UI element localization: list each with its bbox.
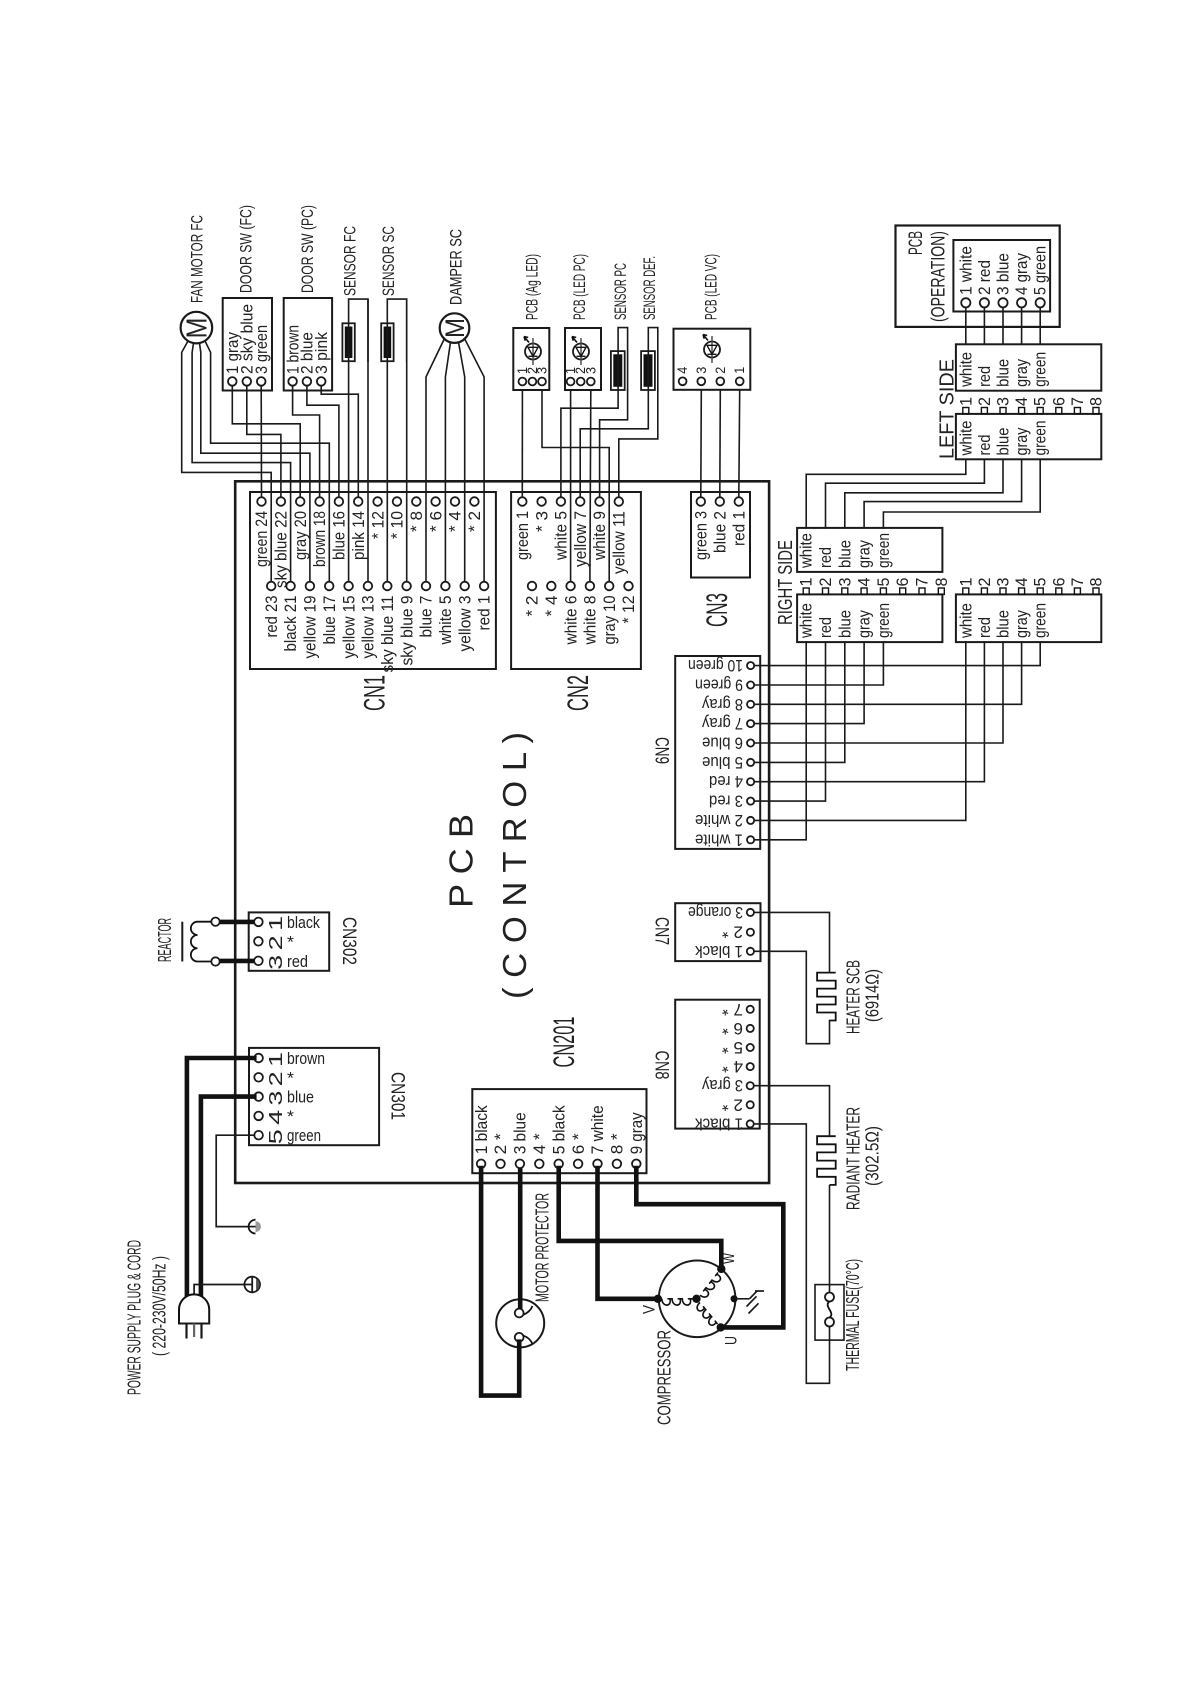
svg-text:white: white	[957, 352, 975, 388]
wire SENSOR PC case lead to CN2 pin9	[600, 390, 628, 497]
svg-text:green 24: green 24	[252, 511, 271, 567]
LEFT SIDE lower mate color labels	[957, 603, 1049, 639]
PCB OPERATION pin labels	[957, 246, 1049, 295]
svg-text:3: 3	[265, 1091, 286, 1106]
svg-text:brown: brown	[287, 1049, 325, 1068]
svg-text:3 blue: 3 blue	[995, 253, 1013, 295]
svg-text:2 red: 2 red	[976, 260, 994, 295]
wire THERMAL FUSE to CN8 pin1	[754, 1124, 830, 1383]
svg-text:CN2: CN2	[562, 675, 595, 711]
connector CN7	[675, 903, 760, 961]
svg-text:2 *: 2 *	[721, 923, 743, 941]
svg-text:gray 20: gray 20	[291, 511, 310, 560]
CN2 bottom row pin labels	[523, 596, 639, 646]
svg-text:SENSOR PC: SENSOR PC	[611, 263, 630, 320]
svg-text:green: green	[875, 603, 893, 638]
svg-text:3: 3	[995, 397, 1013, 406]
wire plug earth to chassis ground	[194, 1285, 244, 1296]
chassis ground (plug shell)	[244, 1277, 260, 1293]
label PCB (CONTROL)	[442, 732, 532, 999]
svg-text:*: *	[287, 933, 294, 952]
wire CN9 pin 8 to side connector	[754, 642, 1021, 704]
svg-text:sky blue 11: sky blue 11	[378, 596, 397, 673]
svg-text:red 1: red 1	[475, 596, 494, 631]
connector CN302	[249, 912, 330, 970]
CN301 pins 1-5	[254, 1054, 263, 1140]
RIGHT SIDE pin numbers 1-8	[798, 578, 951, 587]
wire DOOR SW FC pin2 to CN1 pin22	[247, 386, 281, 498]
svg-text:7: 7	[1069, 578, 1087, 587]
svg-text:red: red	[817, 547, 835, 568]
wire HEATER SCB to CN7 pin1	[754, 951, 830, 1043]
LEFT SIDE upper color labels	[957, 352, 1049, 388]
connector LEFT SIDE upper half	[956, 344, 1101, 390]
svg-text:red: red	[287, 952, 308, 971]
wire side link 4 (right side to left side)	[864, 459, 1022, 528]
wire damper lead 2 to CN1 pin 5	[445, 342, 450, 582]
svg-text:2: 2	[976, 578, 994, 587]
RIGHT SIDE mating pins	[803, 588, 944, 594]
svg-text:blue: blue	[287, 1088, 314, 1107]
svg-text:blue: blue	[836, 610, 854, 638]
wire LED VC pin2 to CN3 pin2	[719, 390, 722, 497]
wire damper lead 3 to CN1 pin 3	[459, 342, 465, 582]
svg-text:V: V	[640, 1304, 659, 1314]
inductor REACTOR	[182, 918, 219, 966]
thermistor SENSOR PC	[611, 328, 628, 390]
svg-text:5 *: 5 *	[721, 1038, 743, 1056]
svg-text:FAN MOTOR FC: FAN MOTOR FC	[188, 215, 207, 303]
connector on PCB (OPERATION)	[953, 240, 1050, 312]
svg-text:1: 1	[732, 367, 747, 374]
wire fan motor lead 3 to CN1 pin 19	[200, 343, 310, 582]
svg-text:white: white	[798, 603, 816, 639]
PCB (CONTROL) board outline	[235, 481, 769, 1183]
svg-text:3 green: 3 green	[252, 325, 271, 374]
svg-text:green: green	[875, 533, 893, 568]
wire CN9 pin 4 to side connector	[754, 642, 984, 782]
svg-text:6: 6	[1050, 397, 1068, 406]
wire side link 3 (right side to left side)	[845, 459, 1003, 528]
svg-text:*: *	[287, 1107, 294, 1126]
wire SENSOR PC center lead to CN2 pin5	[561, 390, 618, 497]
label HEATER SCB (6914 ohm)	[844, 960, 883, 1034]
svg-text:5 blue: 5 blue	[702, 753, 743, 771]
wire SENSOR DEF case lead to CN2 pin11	[619, 390, 658, 497]
svg-text:3: 3	[836, 578, 854, 587]
svg-text:5: 5	[265, 1129, 286, 1144]
wire PCB OPERATION pin 5 to LEFT SIDE	[1039, 307, 1041, 344]
switch DOOR SW (PC)	[284, 298, 332, 391]
thermal fuse THERMAL FUSE(70C)	[815, 1285, 844, 1341]
svg-text:1: 1	[798, 578, 816, 587]
svg-text:(6914Ω): (6914Ω)	[863, 969, 883, 1022]
svg-text:DOOR SW (FC): DOOR SW (FC)	[237, 205, 256, 293]
svg-text:U: U	[722, 1336, 741, 1345]
svg-text:4 gray: 4 gray	[1013, 252, 1031, 295]
svg-text:4: 4	[1013, 397, 1031, 406]
svg-text:2: 2	[265, 935, 286, 950]
svg-text:MOTOR PROTECTOR: MOTOR PROTECTOR	[533, 1193, 553, 1302]
svg-text:* 8: * 8	[407, 511, 426, 532]
svg-text:red: red	[976, 617, 994, 638]
CN301 pin labels	[265, 1049, 325, 1145]
CN7 pins 3-1	[747, 909, 754, 955]
switch DOOR SW (FC)	[223, 298, 272, 391]
DOOR SW (PC) pin labels	[283, 325, 331, 374]
svg-text:green: green	[1032, 603, 1050, 638]
wire side link 1 (right side to left side)	[806, 459, 966, 528]
wire CN9 pin 10 to side connector	[754, 642, 1040, 666]
wire CN9 pin 6 to side connector	[754, 642, 1003, 743]
svg-text:5 green: 5 green	[1032, 246, 1050, 295]
svg-text:2: 2	[976, 397, 994, 406]
svg-text:1: 1	[265, 1052, 286, 1067]
svg-text:sky blue 22: sky blue 22	[272, 511, 291, 588]
svg-text:* 3: * 3	[532, 511, 551, 532]
svg-text:4 red: 4 red	[709, 772, 743, 790]
CN201 pins 1-9	[477, 1160, 641, 1169]
svg-text:CN8: CN8	[651, 1051, 672, 1080]
label POWER SUPPLY PLUG & CORD	[125, 1240, 170, 1395]
wire CN301 pin5 green to chassis ground	[216, 1135, 254, 1226]
DOOR SW (PC) pins 1-3	[288, 377, 325, 386]
connector CN9	[675, 656, 760, 849]
wire SENSOR FC center lead to CN1 pin15	[348, 361, 350, 582]
connector CN1	[250, 492, 496, 669]
svg-text:6: 6	[1050, 578, 1068, 587]
wire CN9 pin 1 to side connector	[754, 642, 806, 840]
svg-text:gray: gray	[856, 539, 874, 568]
svg-text:blue: blue	[836, 540, 854, 568]
svg-text:6 blue: 6 blue	[702, 734, 743, 752]
svg-text:green 3: green 3	[692, 511, 711, 560]
svg-text:M: M	[182, 318, 214, 339]
svg-text:3 gray: 3 gray	[701, 1076, 743, 1094]
wire LED PC pin3 to CN2 pin8	[589, 390, 592, 582]
svg-text:REACTOR: REACTOR	[155, 918, 175, 962]
svg-text:2: 2	[713, 367, 728, 374]
svg-text:2 *: 2 *	[721, 1095, 743, 1113]
thermistor SENSOR DEF.	[641, 328, 658, 390]
svg-text:3: 3	[583, 367, 598, 374]
connector CN8	[675, 1000, 760, 1129]
connector CN301	[249, 1048, 379, 1145]
svg-text:8 gray: 8 gray	[701, 695, 743, 713]
svg-text:7 gray: 7 gray	[701, 714, 743, 732]
svg-text:blue: blue	[995, 610, 1013, 638]
svg-text:red 1: red 1	[730, 511, 749, 546]
svg-text:3 red: 3 red	[709, 792, 743, 810]
svg-text:( C O N T R O L ): ( C O N T R O L )	[496, 732, 533, 999]
wire CN9 pin 7 to side connector	[754, 642, 864, 724]
CN8 pins 7-1	[747, 1006, 754, 1128]
wire DOOR SW PC pin2 to CN1 pin16	[307, 386, 339, 498]
svg-text:DAMPER SC: DAMPER SC	[447, 229, 466, 305]
svg-text:black 21: black 21	[281, 596, 300, 652]
wire side link 2 (right side to left side)	[826, 459, 985, 528]
svg-text:white: white	[957, 603, 975, 639]
svg-text:brown 18: brown 18	[310, 511, 329, 567]
wire CN201 pin5 to compressor W	[559, 1168, 722, 1266]
svg-text:SENSOR DEF.: SENSOR DEF.	[640, 256, 659, 320]
fan motor FC symbol M	[181, 312, 214, 344]
connector CN3	[691, 492, 750, 578]
svg-text:7: 7	[1069, 397, 1087, 406]
svg-text:yellow 7: yellow 7	[571, 511, 590, 567]
LEFT SIDE mating pins	[963, 408, 1099, 414]
CN9 pins 10-1	[747, 662, 754, 843]
svg-text:CN302: CN302	[338, 917, 359, 965]
svg-text:1: 1	[957, 578, 975, 587]
svg-text:green: green	[1032, 352, 1050, 387]
power plug	[179, 1294, 210, 1338]
wire LED VC pin1 to CN3 pin1	[738, 390, 741, 497]
wire DOOR SW PC pin1 to CN1 pin18	[293, 386, 320, 498]
wire Ag LED pin3 to CN2 pin10	[542, 390, 609, 582]
resistor RADIANT HEATER	[817, 1136, 836, 1185]
svg-text:M: M	[440, 318, 470, 338]
svg-text:2: 2	[265, 1071, 286, 1086]
svg-text:blue 16: blue 16	[330, 511, 349, 560]
connector LEFT SIDE lower mate	[956, 594, 1101, 642]
svg-text:gray: gray	[1013, 609, 1031, 638]
LED board PCB (LED VC)	[674, 329, 751, 390]
wire fan motor lead 4 to CN1 pin 17	[205, 341, 329, 582]
svg-text:red 23: red 23	[262, 596, 281, 638]
svg-text:blue: blue	[995, 359, 1013, 387]
svg-text:4: 4	[1013, 578, 1031, 587]
svg-text:* 12: * 12	[619, 596, 638, 624]
wire RADIANT HEATER to THERMAL FUSE	[829, 1185, 831, 1293]
svg-text:CN1: CN1	[359, 675, 392, 711]
svg-text:(OPERATION): (OPERATION)	[928, 231, 949, 322]
svg-text:* 10: * 10	[388, 511, 407, 539]
wire CN9 pin 9 to side connector	[754, 642, 883, 685]
compressor frame ground	[738, 1291, 764, 1314]
svg-text:yellow 19: yellow 19	[301, 596, 320, 659]
svg-text:yellow 11: yellow 11	[610, 511, 629, 574]
svg-text:6 *: 6 *	[721, 1019, 743, 1037]
CN2 bottom row pins 2-12	[528, 582, 633, 591]
svg-text:* 4: * 4	[542, 596, 561, 617]
PCB (OPERATION) board outline	[896, 226, 1060, 327]
wire damper lead 4 to CN1 pin 1	[465, 339, 485, 582]
svg-text:HEATER SCB: HEATER SCB	[844, 960, 864, 1034]
svg-text:* 6: * 6	[426, 511, 445, 532]
CN3 pin labels	[692, 511, 749, 560]
svg-text:9 gray: 9 gray	[627, 1112, 646, 1154]
svg-text:3: 3	[265, 955, 286, 970]
LED board PCB (LED PC)	[563, 328, 601, 390]
svg-text:5: 5	[875, 578, 893, 587]
svg-text:3 blue: 3 blue	[511, 1112, 530, 1154]
svg-text:8: 8	[1088, 397, 1106, 406]
CN302 pins 1-3	[254, 918, 263, 965]
CN7 pin labels	[688, 903, 743, 960]
svg-text:PCB (Ag LED): PCB (Ag LED)	[523, 254, 542, 320]
svg-text:6 *: 6 *	[569, 1133, 588, 1154]
wire CN301 pin3 blue to plug	[201, 1097, 254, 1298]
svg-text:CN3: CN3	[701, 593, 734, 627]
CN302 pin labels	[265, 913, 320, 971]
connector RIGHT SIDE lower half	[797, 594, 942, 642]
svg-text:white 6: white 6	[561, 596, 580, 646]
svg-text:CN301: CN301	[387, 1072, 408, 1120]
svg-text:gray: gray	[856, 609, 874, 638]
svg-text:red: red	[976, 366, 994, 387]
thermistor SENSOR SC	[381, 299, 407, 361]
svg-text:blue 2: blue 2	[711, 511, 730, 553]
svg-text:white 5: white 5	[436, 596, 455, 646]
LEFT SIDE lower mate mating pins	[963, 588, 1099, 594]
svg-text:CN7: CN7	[651, 917, 672, 945]
LED board PCB (Ag LED)	[513, 328, 549, 390]
svg-text:3 orange: 3 orange	[688, 903, 743, 921]
svg-text:black: black	[287, 913, 320, 932]
svg-text:SENSOR FC: SENSOR FC	[341, 226, 360, 296]
svg-text:7 *: 7 *	[721, 1000, 743, 1018]
wire PCB OPERATION pin 2 to LEFT SIDE	[983, 307, 985, 344]
svg-text:POWER SUPPLY PLUG & CORD: POWER SUPPLY PLUG & CORD	[125, 1240, 145, 1395]
svg-text:green: green	[1032, 421, 1050, 456]
svg-text:RIGHT SIDE: RIGHT SIDE	[775, 540, 797, 625]
svg-text:SENSOR SC: SENSOR SC	[379, 226, 398, 296]
svg-text:blue: blue	[995, 428, 1013, 456]
svg-text:CN9: CN9	[651, 737, 672, 764]
wire PCB OPERATION pin 3 to LEFT SIDE	[1002, 307, 1004, 344]
svg-text:green 1: green 1	[513, 511, 532, 560]
resistor HEATER SCB	[817, 973, 836, 1021]
wire SENSOR SC loop lead to CN1 pin9	[406, 299, 408, 582]
svg-text:yellow 15: yellow 15	[339, 596, 358, 659]
svg-text:3 pink: 3 pink	[312, 332, 331, 374]
svg-text:2: 2	[817, 578, 835, 587]
wire CN201 pin3 to motor protector	[518, 1168, 523, 1309]
svg-text:* 12: * 12	[368, 511, 387, 539]
connector RIGHT SIDE upper half	[797, 528, 942, 572]
wire LED VC pin3 to CN3 pin3	[700, 390, 703, 497]
connector CN2	[511, 492, 641, 669]
svg-text:1: 1	[957, 397, 975, 406]
wire REACTOR to CN302 pin3	[220, 959, 254, 964]
svg-text:white: white	[957, 421, 975, 457]
svg-text:green: green	[287, 1126, 321, 1145]
svg-text:red: red	[976, 435, 994, 456]
svg-text:8: 8	[1088, 578, 1106, 587]
wire SENSOR DEF center lead to CN2 pin7	[580, 390, 648, 497]
svg-text:CN201: CN201	[548, 1017, 581, 1068]
wire motor protector to CN201 pin1	[481, 1168, 519, 1396]
PCB OPERATION pins 1-5	[961, 298, 1045, 307]
svg-text:1 black: 1 black	[694, 942, 743, 960]
svg-text:9 green: 9 green	[695, 676, 743, 694]
svg-text:1 black: 1 black	[472, 1105, 491, 1154]
RIGHT SIDE upper color labels	[798, 533, 893, 569]
wire CN9 pin 2 to side connector	[754, 642, 966, 820]
motor protector symbol	[496, 1299, 544, 1347]
compressor motor windings	[654, 1261, 738, 1338]
CN1 bottom row pins 23-1	[267, 582, 489, 591]
CN201 pin labels	[472, 1105, 646, 1154]
wire REACTOR to CN302 pin1	[220, 920, 254, 925]
svg-text:5 black: 5 black	[549, 1105, 568, 1154]
connector CN201	[472, 1089, 646, 1173]
CN1 top row pin labels	[252, 511, 484, 588]
svg-text:5: 5	[1032, 397, 1050, 406]
svg-text:5: 5	[1032, 578, 1050, 587]
CN3 pins 3-1	[697, 497, 744, 506]
svg-text:*: *	[287, 1068, 294, 1087]
svg-text:2 *: 2 *	[491, 1133, 510, 1154]
svg-text:PCB (LED PC): PCB (LED PC)	[570, 254, 589, 320]
wire SENSOR SC center lead to CN1 pin11	[386, 361, 388, 582]
svg-text:COMPRESSOR: COMPRESSOR	[655, 1330, 675, 1425]
CN8 pin labels	[694, 1000, 743, 1133]
svg-text:* 4: * 4	[446, 511, 465, 532]
wire LED PC pin1 to CN2 pin6	[570, 390, 572, 582]
svg-text:RADIANT HEATER: RADIANT HEATER	[844, 1107, 864, 1210]
CN2 top row pin labels	[513, 511, 629, 574]
wire DOOR SW FC pin1 to CN1 pin20	[232, 386, 300, 498]
LEFT SIDE lower color labels	[957, 421, 1049, 457]
wire CN7 pin3 to HEATER SCB	[754, 912, 830, 972]
svg-text:blue 17: blue 17	[320, 596, 339, 645]
connector LEFT SIDE lower half	[956, 414, 1101, 459]
svg-text:7: 7	[914, 578, 932, 587]
DOOR SW (FC) pins 1-3	[228, 377, 266, 386]
LEFT SIDE lower mate pin numbers 1-8	[957, 578, 1105, 587]
svg-text:8 *: 8 *	[608, 1133, 627, 1154]
CN1 top row pins 24-2	[257, 497, 479, 506]
wire CN8 pin3 to RADIANT HEATER	[754, 1086, 830, 1137]
svg-text:PCB: PCB	[906, 231, 927, 255]
svg-text:1: 1	[265, 916, 286, 931]
label PCB (OPERATION)	[906, 231, 950, 322]
svg-text:1 white: 1 white	[957, 246, 975, 295]
CN1 bottom row pin labels	[262, 596, 494, 673]
svg-text:4: 4	[675, 366, 690, 373]
svg-text:4 *: 4 *	[721, 1057, 743, 1075]
svg-text:( 220-230V/50Hz ): ( 220-230V/50Hz )	[150, 1256, 170, 1356]
svg-text:4: 4	[856, 578, 874, 587]
svg-text:white 9: white 9	[590, 511, 609, 561]
wire side link 5 (right side to left side)	[883, 459, 1040, 528]
svg-text:3: 3	[694, 367, 709, 374]
svg-text:pink 14: pink 14	[349, 511, 368, 560]
wire CN301 pin1 brown to plug	[187, 1058, 254, 1297]
svg-text:white: white	[798, 533, 816, 569]
svg-text:3: 3	[535, 367, 550, 374]
svg-text:yellow 13: yellow 13	[359, 596, 378, 659]
CN9 pin labels	[688, 656, 743, 848]
svg-text:gray: gray	[1013, 358, 1031, 387]
CN2 top row pins 1-11	[518, 497, 623, 506]
wire CN9 pin 3 to side connector	[754, 642, 825, 801]
wire DOOR SW FC pin3 to CN1 pin24	[260, 386, 262, 498]
wire damper lead 1 to CN1 pin 7	[426, 339, 445, 582]
svg-text:yellow 3: yellow 3	[455, 596, 474, 652]
damper motor DAMPER SC symbol M	[440, 313, 470, 343]
svg-text:white 5: white 5	[552, 511, 571, 561]
wire CN201 pin9 to compressor U	[636, 1168, 783, 1327]
wire PCB OPERATION pin 1 to LEFT SIDE	[965, 307, 967, 344]
LEFT SIDE pin numbers 1-8	[957, 397, 1105, 406]
wire CN9 pin 5 to side connector	[754, 642, 845, 762]
wire SENSOR FC loop lead to CN1 pin13	[367, 299, 369, 582]
svg-text:3: 3	[995, 578, 1013, 587]
svg-text:THERMAL FUSE(70°C): THERMAL FUSE(70°C)	[843, 1259, 863, 1371]
